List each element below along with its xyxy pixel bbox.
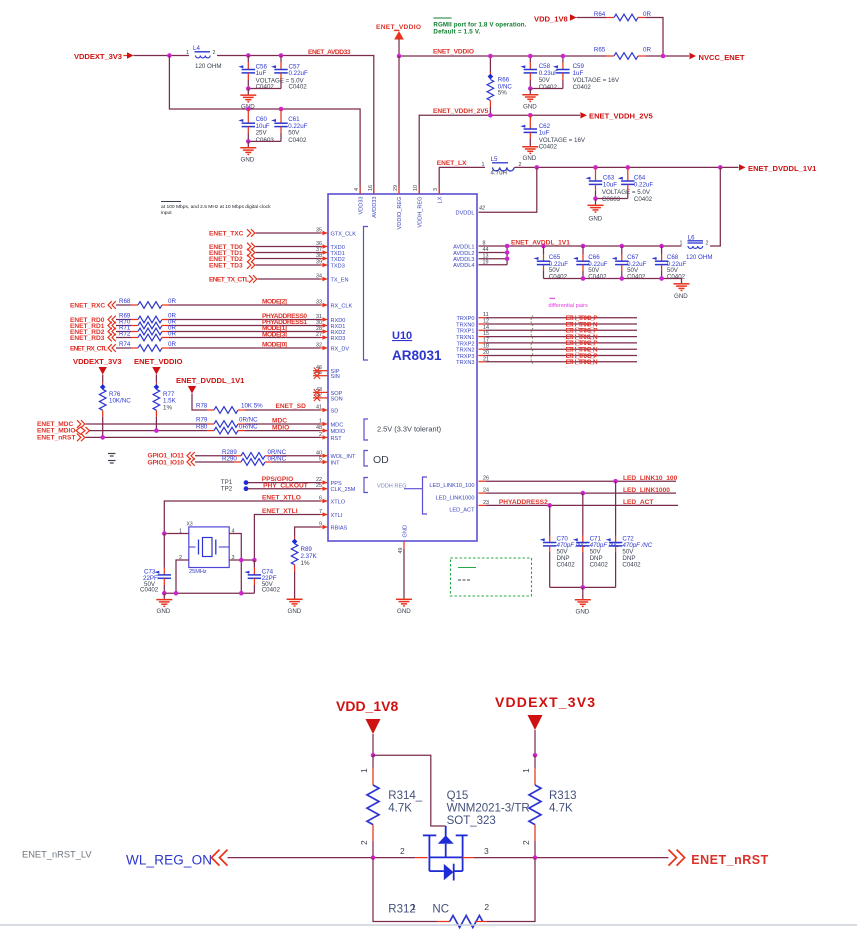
transistor Q15 WNM2021-3/TR	[400, 790, 530, 881]
svg-text:1: 1	[359, 768, 369, 773]
svg-text:Default = 1.5 V.: Default = 1.5 V.	[433, 28, 480, 35]
svg-text:16: 16	[368, 185, 374, 191]
svg-text:ENET_AVDD33: ENET_AVDD33	[308, 49, 351, 56]
svg-text:R65: R65	[594, 47, 606, 54]
net PPS/GPIO	[248, 476, 321, 483]
svg-text:C0402: C0402	[627, 274, 646, 281]
net ETH_TRX1_P	[479, 328, 638, 335]
svg-text:RST: RST	[331, 436, 343, 442]
svg-text:ENET_DVDDL_1V1: ENET_DVDDL_1V1	[176, 376, 245, 385]
svg-text:MDIO: MDIO	[272, 424, 289, 431]
svg-text:R290: R290	[222, 455, 237, 462]
svg-text:2.5V (3.3V tolerant): 2.5V (3.3V tolerant)	[377, 425, 441, 434]
capacitor C67 0.22uF	[612, 244, 647, 281]
net ENET_RD0 with resistor R69 0R	[70, 313, 321, 325]
wire AVDDL2-4 stubs and riser	[479, 244, 510, 265]
svg-text:2.37K: 2.37K	[301, 553, 318, 560]
svg-text:GND: GND	[674, 293, 688, 300]
net GPIO1_IO11	[148, 452, 235, 460]
capacitor C58 0.23uF	[520, 56, 558, 91]
svg-text:GND: GND	[157, 608, 171, 615]
capacitor C72 470pF/NC	[606, 481, 653, 587]
net PHY_CLKOUT	[248, 482, 321, 489]
svg-text:ENET_VDDH_2V5: ENET_VDDH_2V5	[589, 111, 654, 120]
svg-text:PHY_CLKOUT: PHY_CLKOUT	[263, 482, 308, 489]
svg-text:VOLTAGE = 5.0V: VOLTAGE = 5.0V	[602, 189, 651, 196]
wire L6 to DVDDL rail riser	[710, 167, 720, 246]
ground below R89	[287, 599, 303, 615]
svg-text:25MHz: 25MHz	[189, 569, 207, 575]
OD group bracket	[364, 451, 368, 467]
svg-text:RXD3: RXD3	[331, 336, 346, 342]
net WL_REG_ON	[22, 850, 428, 868]
svg-text:R80: R80	[196, 423, 208, 430]
capacitor C60 10uF	[238, 109, 274, 144]
svg-text:at 100 Mbps, and 2.5 MHz at 10: at 100 Mbps, and 2.5 MHz at 10 Mbps digi…	[161, 204, 271, 210]
port NVCC_ENET	[690, 53, 745, 62]
svg-text:differential pairs: differential pairs	[548, 303, 588, 309]
resistor R76 10K/NC	[99, 382, 131, 437]
inductor L5 4.7uH	[482, 156, 522, 176]
svg-text:2: 2	[400, 846, 405, 856]
svg-text:C0402: C0402	[622, 562, 641, 569]
svg-text:ENET_TX_CTL: ENET_TX_CTL	[209, 277, 249, 284]
pair marks	[531, 316, 533, 364]
capacitor C70 470pF/NC	[540, 505, 587, 587]
svg-text:TX_EN: TX_EN	[331, 277, 349, 283]
svg-text:LED_ACT: LED_ACT	[449, 507, 475, 513]
svg-text:ENET_DVDDL_1V1: ENET_DVDDL_1V1	[748, 164, 817, 173]
svg-text:TRXP0: TRXP0	[456, 316, 474, 322]
resistor R290 0R/NC	[222, 455, 321, 465]
net GPIO1_IO10	[148, 458, 235, 466]
wire GND pin 49 to ground	[403, 549, 405, 599]
svg-text:input: input	[161, 210, 172, 216]
svg-text:LED_ACT: LED_ACT	[623, 499, 653, 506]
capacitor C61 0.22uF	[271, 109, 308, 144]
svg-text:2: 2	[706, 241, 709, 247]
svg-text:0R: 0R	[168, 341, 176, 348]
net ETH_TRX2_P	[479, 340, 638, 347]
svg-text:GND: GND	[589, 216, 603, 223]
svg-text:OD: OD	[373, 454, 389, 466]
svg-text:L4: L4	[193, 45, 200, 52]
svg-text:ETH_TRX3_N: ETH_TRX3_N	[566, 359, 598, 366]
svg-text:0.23uF: 0.23uF	[539, 70, 558, 77]
wire crystal pin1	[164, 533, 189, 535]
svg-text:VDDIO_REG: VDDIO_REG	[397, 197, 403, 230]
net LED_ACT / PHYADDRESS2	[479, 499, 679, 508]
svg-text:TRXP3: TRXP3	[456, 354, 474, 360]
svg-text:C0402: C0402	[590, 562, 609, 569]
net ENET_MDIO	[37, 427, 196, 435]
net ENET_TD3	[209, 261, 321, 269]
wire VDDEXT_3V3 to L4	[134, 55, 190, 57]
left pin names	[331, 231, 357, 531]
node C57 tap	[279, 53, 284, 58]
svg-text:LED_LINK1000: LED_LINK1000	[623, 487, 670, 494]
net ENET_RXC with resistor R68 0R	[70, 298, 321, 310]
RGMII group bracket	[364, 227, 369, 361]
net ENET_nRST	[462, 850, 768, 868]
capacitor C65 0.22uF	[534, 244, 569, 281]
svg-text:49: 49	[398, 548, 404, 554]
svg-text:0R/NC: 0R/NC	[239, 423, 258, 430]
ground below C56/C57	[240, 95, 256, 110]
svg-text:ENET_nRST_LV: ENET_nRST_LV	[22, 850, 92, 860]
svg-text:R313: R313	[549, 790, 577, 802]
svg-text:TXD2: TXD2	[331, 257, 345, 263]
svg-text:XTLO: XTLO	[331, 499, 346, 505]
resistor R79 0R/NC	[196, 417, 321, 428]
ground below pin 49	[396, 599, 412, 615]
wire C56/C57 ground join	[248, 88, 281, 90]
svg-text:1: 1	[186, 50, 189, 56]
svg-text:TP2: TP2	[221, 486, 233, 493]
svg-text:AVDD33: AVDD33	[372, 197, 378, 218]
wire ENET_VDDH_2V5 rail	[419, 115, 580, 194]
net ENET_MDC	[37, 420, 196, 428]
svg-text:TRXP1: TRXP1	[456, 329, 474, 335]
wire cap ground rail	[544, 279, 682, 284]
node Q15 source	[371, 855, 376, 860]
svg-text:2: 2	[359, 840, 369, 845]
power port VDDEXT_3V3 (top-left)	[74, 52, 134, 61]
svg-text:C0402: C0402	[140, 587, 159, 594]
wire crystal ground row	[164, 592, 254, 594]
svg-text:R72: R72	[119, 331, 131, 338]
svg-text:C0603: C0603	[256, 137, 275, 144]
svg-text:LED_LINK10_100: LED_LINK10_100	[623, 475, 678, 482]
svg-text:C60: C60	[256, 116, 268, 123]
resistor R312 NC	[373, 858, 535, 928]
power port VDD_1V8	[534, 14, 577, 23]
svg-text:X3: X3	[187, 522, 193, 528]
node C56 tap	[246, 53, 251, 58]
net ENET_TD2	[209, 255, 321, 263]
node Q15 drain	[533, 855, 538, 860]
svg-text:U10: U10	[392, 330, 412, 342]
svg-text:3: 3	[433, 188, 439, 191]
power port ENET_VDDIO (top)	[376, 24, 421, 56]
svg-text:AVDDL1: AVDDL1	[453, 244, 474, 250]
net ETH_TRX0_N	[479, 321, 638, 328]
resistor R89 2.37K	[291, 537, 317, 599]
svg-text:AR8031: AR8031	[392, 348, 442, 363]
svg-text:0.22uF: 0.22uF	[289, 70, 308, 77]
svg-text:C0402: C0402	[289, 84, 308, 91]
svg-text:LX: LX	[437, 196, 443, 203]
power port VDDEXT_3V3 (pullups)	[73, 357, 122, 382]
resistor R77 1.5K	[153, 382, 177, 430]
svg-text:LED_LINK1000: LED_LINK1000	[436, 495, 475, 501]
net ETH_TRX3_P	[479, 353, 638, 360]
svg-text:MODE[3]: MODE[3]	[262, 331, 287, 338]
svg-text:C0402: C0402	[549, 274, 568, 281]
svg-text:2: 2	[521, 840, 531, 845]
resistor R314 4.7K	[359, 755, 423, 857]
page border bottom	[0, 924, 857, 926]
capacitor C74 22PF	[244, 560, 280, 594]
node R76 to ENET_nRST	[100, 435, 105, 440]
resistor R289 0R/NC	[222, 449, 321, 459]
svg-text:AVDDL4: AVDDL4	[453, 263, 474, 269]
svg-text:ENET_RXC: ENET_RXC	[70, 303, 105, 310]
svg-text:1%: 1%	[163, 405, 172, 412]
net ENET_TXC	[209, 229, 321, 237]
top pin leads	[360, 187, 439, 195]
svg-text:C61: C61	[288, 116, 300, 123]
svg-text:TXD3: TXD3	[331, 263, 345, 269]
wire C60/C61 ground join	[248, 140, 281, 142]
wire DVDDL stub riser	[479, 167, 537, 212]
svg-text:4.7K: 4.7K	[388, 803, 412, 815]
left pin leads with arrows	[321, 231, 329, 529]
svg-text:50V: 50V	[288, 130, 300, 137]
svg-text:LED_LINK10_100: LED_LINK10_100	[429, 483, 474, 489]
ground below C58/C59	[522, 95, 538, 111]
svg-text:C0402: C0402	[667, 274, 686, 281]
svg-text:RX_CLK: RX_CLK	[331, 303, 353, 309]
svg-text:ENET_LX: ENET_LX	[437, 160, 467, 167]
capacitor C62 1uF	[520, 115, 586, 150]
svg-text:4: 4	[354, 188, 360, 191]
svg-text:XTLI: XTLI	[331, 513, 343, 519]
svg-text:ENET_VDDIO: ENET_VDDIO	[134, 357, 183, 366]
svg-text:NC: NC	[432, 904, 449, 916]
svg-text:2: 2	[484, 902, 489, 912]
svg-text:0.22uF: 0.22uF	[634, 181, 653, 188]
svg-text:1uF: 1uF	[539, 129, 550, 136]
svg-text:GND: GND	[523, 104, 537, 111]
svg-text:R66: R66	[498, 76, 510, 83]
PPS group bracket	[364, 478, 368, 493]
svg-text:2: 2	[213, 50, 216, 56]
svg-text:WOL_INT: WOL_INT	[331, 454, 356, 460]
svg-text:NVCC_ENET: NVCC_ENET	[699, 53, 745, 62]
svg-text:1: 1	[482, 162, 485, 168]
svg-text:SON: SON	[331, 396, 343, 402]
wire R64 to NVCC node	[646, 18, 663, 57]
capacitor C66 0.22uF	[573, 244, 608, 281]
net ETH_TRX1_N	[479, 334, 638, 341]
net ENET_RD2 with resistor R71 0R	[70, 325, 321, 337]
svg-text:VDDH_REG: VDDH_REG	[417, 197, 423, 228]
net ETH_TRX3_N	[479, 359, 638, 366]
net ENET_nRST	[37, 434, 321, 442]
svg-text:C0402: C0402	[288, 137, 307, 144]
svg-text:SIN: SIN	[331, 374, 340, 380]
svg-text:C0402: C0402	[262, 587, 281, 594]
svg-text:GTX_CLK: GTX_CLK	[331, 231, 357, 237]
svg-text:ENET_TD3: ENET_TD3	[209, 263, 243, 270]
no-connect X pins SIP SIN SOP SON	[313, 368, 328, 402]
svg-text:1: 1	[411, 902, 416, 912]
top pin names	[358, 196, 443, 229]
svg-text:ENET_RD3: ENET_RD3	[70, 335, 105, 342]
svg-text:1uF: 1uF	[256, 70, 267, 77]
svg-text:VDDEXT_3V3: VDDEXT_3V3	[74, 52, 122, 61]
capacitor C63 10uF	[586, 167, 651, 203]
capacitor C59 1uF	[553, 56, 620, 91]
note clock text	[161, 202, 271, 217]
svg-text:SD: SD	[331, 408, 339, 414]
svg-text:RX_DV: RX_DV	[331, 346, 350, 352]
net LED_LINK10_100	[479, 475, 678, 484]
svg-text:C0603: C0603	[602, 196, 621, 203]
svg-text:ENET_TXC: ENET_TXC	[209, 231, 244, 238]
bottom pin GND lead	[403, 541, 405, 549]
test point TP2	[221, 486, 249, 493]
capacitor C68 0.22uF	[652, 244, 687, 281]
svg-text:4.7uH: 4.7uH	[491, 169, 508, 176]
svg-text:VDDH REG: VDDH REG	[377, 484, 407, 490]
ground below C62	[522, 147, 538, 162]
svg-text:C0402: C0402	[573, 84, 592, 91]
svg-text:R78: R78	[196, 403, 208, 410]
node junction at x=169.4 on AVDD33 rail	[167, 53, 172, 58]
net ENET_XTLO	[164, 495, 320, 534]
net ENET_RX_CTL with resistor R74 0R	[70, 341, 321, 353]
resistor R313 4.7K	[521, 755, 577, 857]
svg-text:10K 5%: 10K 5%	[241, 403, 263, 410]
svg-text:TRXN1: TRXN1	[456, 335, 474, 341]
wire C58/C59 ground join	[530, 88, 563, 90]
svg-text:0R: 0R	[168, 298, 176, 305]
svg-text:GND: GND	[402, 525, 408, 537]
svg-text:120 OHM: 120 OHM	[195, 63, 221, 70]
power port ENET_VDDIO (pullups)	[134, 357, 183, 382]
svg-text:3: 3	[484, 846, 489, 856]
svg-text:4.7K: 4.7K	[549, 803, 573, 815]
port ENET_VDDH_2V5	[580, 111, 653, 120]
inductor L6 120 OHM	[680, 234, 713, 260]
note green dashed box	[451, 558, 532, 596]
test point TP1	[221, 479, 249, 486]
svg-text:GND: GND	[397, 608, 411, 615]
svg-text:ENET_SD: ENET_SD	[276, 403, 307, 410]
capacitor C57 0.22uF	[271, 56, 308, 91]
svg-text:10uF: 10uF	[603, 181, 617, 188]
top pin numbers	[354, 185, 439, 191]
svg-text:120 OHM: 120 OHM	[686, 254, 712, 261]
svg-text:VDDEXT_3V3: VDDEXT_3V3	[73, 357, 122, 366]
svg-text:DVDDL: DVDDL	[456, 211, 475, 217]
wire crystal pin3	[229, 559, 254, 561]
svg-text:VDDEXT_3V3: VDDEXT_3V3	[495, 694, 595, 710]
ground below C65-C68	[674, 284, 690, 300]
right pin numbers	[479, 206, 489, 506]
stub marks	[108, 454, 116, 464]
svg-text:ENET_VDDH_2V5: ENET_VDDH_2V5	[433, 108, 489, 115]
wire C70-72 ground rail	[550, 586, 616, 588]
wire ENET_LX rail	[439, 167, 485, 194]
svg-text:C0402: C0402	[256, 84, 275, 91]
node R77 to ENET_MDIO	[154, 428, 159, 433]
resistor R65 0R	[594, 47, 652, 60]
crystal X3 box	[179, 522, 235, 576]
svg-text:10: 10	[413, 185, 419, 191]
ground below C60/C61	[240, 148, 256, 164]
LED group bracket	[404, 488, 423, 490]
inductor L4 120 OHM	[186, 45, 221, 70]
port ENET_DVDDL_1V1	[739, 164, 817, 173]
svg-text:C0402: C0402	[557, 562, 576, 569]
svg-text:TRXN3: TRXN3	[456, 360, 474, 366]
svg-text:PHYADDRESS2: PHYADDRESS2	[499, 499, 548, 506]
ground below C63/C64	[588, 205, 604, 222]
resistor R80 0R/NC	[196, 423, 321, 434]
svg-text:42: 42	[479, 206, 485, 212]
svg-text:GND: GND	[288, 608, 302, 615]
svg-text:RBIAS: RBIAS	[331, 525, 348, 531]
svg-text:MODE[0]: MODE[0]	[262, 342, 287, 349]
net ETH_TRX2_N	[479, 347, 638, 354]
resistor R78 10K (ENET_SD)	[196, 403, 321, 414]
svg-text:1: 1	[680, 241, 683, 247]
svg-text:0R: 0R	[168, 331, 176, 338]
svg-text:SOT_323: SOT_323	[447, 815, 496, 827]
svg-text:R314_: R314_	[388, 790, 422, 802]
resistor R66 0/NC	[487, 56, 512, 115]
right pin names	[429, 211, 475, 514]
svg-text:GND: GND	[523, 155, 537, 162]
net ETH_TRX0_P	[479, 315, 638, 322]
node VDDEXT	[533, 753, 538, 758]
svg-text:R89: R89	[301, 546, 313, 553]
wire LX rail to ENET_DVDDL_1V1	[515, 166, 739, 168]
svg-text:TRXP2: TRXP2	[456, 341, 474, 347]
wire crystal pin4 to pin3 node	[229, 534, 241, 594]
MDC group bracket	[364, 419, 368, 440]
wire VDDIO_REG riser	[398, 56, 400, 194]
differential pairs note	[548, 298, 588, 309]
svg-text:GND: GND	[241, 156, 255, 163]
svg-text:0R/NC: 0R/NC	[268, 455, 287, 462]
svg-text:MDC: MDC	[331, 422, 344, 428]
svg-text:CLK_25M: CLK_25M	[331, 487, 356, 493]
svg-text:10K/NC: 10K/NC	[109, 398, 131, 405]
svg-text:MODE[2]: MODE[2]	[262, 299, 287, 306]
net ENET_XTLI	[254, 508, 320, 560]
svg-text:INT: INT	[331, 460, 341, 466]
net ENET_TD1	[209, 249, 321, 257]
svg-text:ENET_VDDIO: ENET_VDDIO	[433, 49, 474, 56]
svg-text:1uF: 1uF	[573, 70, 584, 77]
net LED_LINK1000	[479, 487, 677, 496]
ground below C70-72	[575, 600, 591, 616]
svg-text:C0402: C0402	[539, 144, 558, 151]
capacitor C56 1uF	[238, 56, 304, 91]
net RBIAS	[295, 527, 321, 537]
svg-text:1%: 1%	[301, 560, 310, 567]
node VDD_1V8	[371, 753, 376, 758]
svg-text:Q15: Q15	[447, 790, 469, 802]
net ENET_RD1 with resistor R70 0R	[70, 319, 321, 331]
left pin numbers	[316, 228, 322, 528]
capacitor C71 470pF/NC	[573, 493, 620, 587]
svg-text:GPIO1_IO10: GPIO1_IO10	[148, 459, 185, 466]
net ENET_TX_CTL	[209, 275, 321, 283]
svg-text:R74: R74	[119, 341, 131, 348]
svg-text:R68: R68	[119, 298, 131, 305]
svg-text:1: 1	[521, 768, 531, 773]
power port ENET_DVDDL_1V1	[176, 376, 245, 410]
resistor R64 0R	[577, 11, 652, 21]
net ENET_TD0	[209, 243, 321, 251]
capacitor C73 22PF	[140, 534, 171, 594]
wire to NVCC_ENET port	[646, 55, 689, 57]
